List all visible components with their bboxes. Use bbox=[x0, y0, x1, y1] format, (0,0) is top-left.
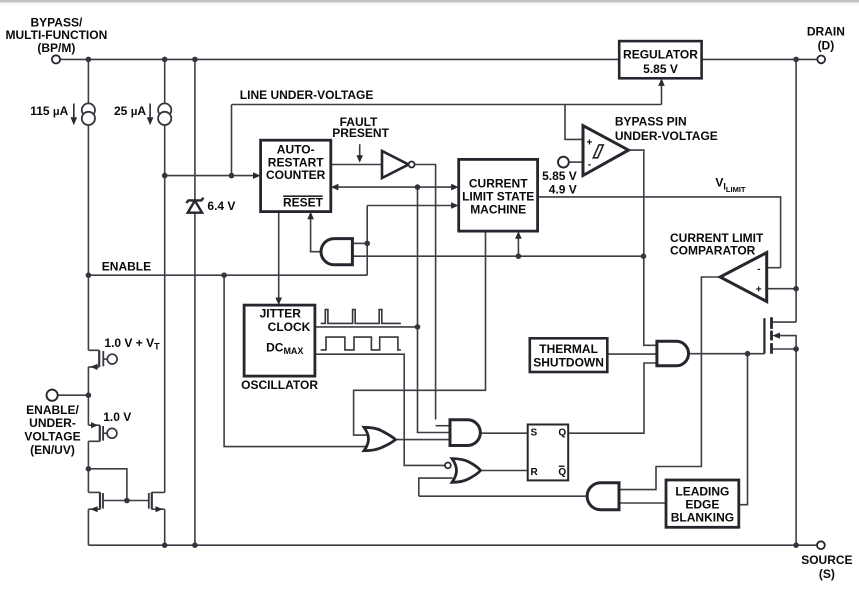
arrow mirror-left source bbox=[90, 506, 97, 512]
junction: ENABLE line / OR1 branch bbox=[221, 272, 227, 278]
svg-text:COUNTER: COUNTER bbox=[266, 168, 326, 182]
arrow left into auto-restart right edge bbox=[331, 184, 339, 191]
arrow reset up bbox=[307, 212, 314, 220]
wire: MOSFET drain connection bbox=[772, 321, 797, 323]
junction: gate node / LEB branch bbox=[745, 351, 751, 357]
115uA current source I1 bbox=[82, 103, 95, 125]
oscillator DCmax waveform bbox=[321, 337, 401, 350]
svg-text:(EN/UV): (EN/UV) bbox=[30, 443, 75, 457]
junction: MOSFET source / body tie bbox=[793, 346, 799, 352]
wire: mirror left FET drain/source stubs bbox=[88, 492, 100, 509]
svg-text:SHUTDOWN: SHUTDOWN bbox=[533, 355, 604, 369]
wire: auto-restart/clock vertical x=417.5 bbox=[418, 187, 451, 432]
overline for RESET bbox=[283, 195, 323, 197]
svg-text:OSCILLATOR: OSCILLATOR bbox=[241, 378, 318, 392]
svg-text:5.85 V: 5.85 V bbox=[542, 169, 577, 183]
wire: mirror right FET drain/source stubs bbox=[152, 492, 165, 509]
svg-text:EDGE: EDGE bbox=[685, 498, 719, 512]
wire: gate node branch to LEB input bbox=[739, 354, 748, 505]
terminal: DRAIN (D) bbox=[817, 56, 825, 64]
wire: FET1 drain/source stubs bbox=[88, 350, 99, 367]
wire: OR2 output to latch R bbox=[481, 470, 528, 472]
box: SR latch bbox=[528, 425, 569, 481]
junction: clock output / fault riser bbox=[415, 324, 421, 330]
svg-text:25 μA: 25 μA bbox=[114, 104, 146, 118]
junction: comparator plus / drain sense bbox=[793, 286, 799, 292]
svg-text:BYPASS PIN: BYPASS PIN bbox=[615, 114, 687, 128]
svg-text:MACHINE: MACHINE bbox=[470, 202, 526, 216]
wire: FET2 drain/source stubs bbox=[88, 425, 99, 441]
wire: mirror gate link y=500.5 bbox=[103, 500, 149, 502]
svg-text:DRAIN: DRAIN bbox=[807, 25, 845, 39]
wire: bypass comparator output down x=643.8 bbox=[629, 150, 657, 345]
comparator +/- signs bbox=[587, 137, 762, 295]
wire: MOSFET source connection bbox=[772, 348, 797, 350]
svg-text:LINE UNDER-VOLTAGE: LINE UNDER-VOLTAGE bbox=[240, 88, 374, 102]
comparator: current limit (points left) bbox=[720, 253, 767, 302]
arrow up into regulator bottom bbox=[658, 78, 665, 86]
junction: source rail / bus B2 bbox=[162, 542, 168, 548]
arrow 115uA down bbox=[71, 117, 78, 125]
wire: regulator feed line y=104.5 bbox=[232, 104, 662, 106]
wire: LEB-AND output line y=496.2 bbox=[419, 495, 587, 497]
wire: enable branch x=224.1 to OR1 bbox=[224, 275, 366, 446]
FET2 gate reference circle bbox=[107, 428, 117, 438]
wire: bus B1 x=88.4 mid bbox=[87, 367, 89, 425]
svg-text:CLOCK: CLOCK bbox=[268, 320, 311, 334]
svg-text:+: + bbox=[756, 285, 762, 296]
wire: OR1 output to AND1 bbox=[396, 439, 451, 441]
svg-text:BLANKING: BLANKING bbox=[671, 511, 734, 525]
wire: clock output y=326.9 bbox=[315, 326, 418, 328]
wire: bypass comp plus input bbox=[565, 105, 583, 140]
junction: source rail / bus B3 bbox=[192, 542, 198, 548]
wire: LEB output to LEB-AND lower input bbox=[619, 502, 666, 504]
gate: OR1 bbox=[364, 427, 396, 450]
svg-text:CURRENT: CURRENT bbox=[469, 177, 528, 191]
wire: EN/UV terminal lead bbox=[58, 394, 89, 396]
bubble on inverter output bbox=[409, 162, 415, 168]
svg-text:Q: Q bbox=[558, 427, 566, 438]
box: CURRENT LIMIT STATE MACHINE bbox=[459, 159, 538, 231]
junction: BP/M rail / bus B1 bbox=[86, 57, 92, 63]
MOSFET output transistor bbox=[764, 317, 771, 354]
wire: comparator minus input y=267.7 bbox=[767, 267, 781, 269]
wire: thermal AND output to gate y=353.7 bbox=[689, 353, 765, 355]
wire: bottom source rail bbox=[88, 544, 817, 546]
wire: current limit comparator output path bbox=[619, 277, 720, 490]
wire: comparator plus input y=288.7 bbox=[767, 288, 796, 290]
svg-text:VOLTAGE: VOLTAGE bbox=[24, 430, 80, 444]
svg-text:ENABLE/: ENABLE/ bbox=[26, 403, 79, 417]
wire: fault-present bidirectional line y=187.1 bbox=[338, 186, 453, 188]
junction: source rail / MOSFET source bbox=[793, 542, 799, 548]
wire: line under-voltage drop x=231.5 bbox=[231, 105, 233, 176]
gate: OR2 bbox=[452, 459, 481, 483]
box: REGULATOR 5.85V bbox=[619, 41, 701, 78]
bubble on OR2 input bbox=[445, 463, 451, 469]
junction: bypass-uv line / state machine arrow bbox=[516, 253, 522, 259]
terminal: BYPASS/MULTI-FUNCTION (BP/M) bbox=[52, 55, 60, 63]
wire: top rail REGULATOR to DRAIN terminal bbox=[702, 58, 818, 60]
latch pin labels bbox=[531, 427, 567, 478]
overline for Qbar bbox=[559, 465, 565, 467]
svg-text:RESTART: RESTART bbox=[268, 155, 324, 169]
wire: bus B1 x=88.4 lower bbox=[87, 441, 89, 492]
wire: auto-restart to inverter y=164.5 bbox=[331, 164, 382, 166]
svg-text:-: - bbox=[588, 160, 591, 171]
svg-text:COMPARATOR: COMPARATOR bbox=[670, 244, 756, 258]
wire: MOSFET body tie bbox=[778, 336, 796, 349]
wire: FET1 gate lead bbox=[103, 358, 107, 360]
svg-text:S: S bbox=[531, 427, 538, 438]
wire: thermal shutdown output y=354.1 bbox=[607, 353, 657, 355]
svg-text:THERMAL: THERMAL bbox=[539, 342, 598, 356]
arrow into state machine input 1 bbox=[451, 184, 459, 191]
wire: bus B2 x=164.7 bbox=[164, 59, 166, 492]
gate: thermal AND bbox=[657, 341, 689, 366]
svg-text:RESET: RESET bbox=[283, 196, 324, 210]
junction: line under-voltage / auto-restart input bbox=[229, 173, 235, 179]
oscillator clock waveform bbox=[321, 310, 401, 324]
wire: bypass comp minus input from 5.85/4.9 terminal bbox=[569, 161, 583, 163]
svg-text:(D): (D) bbox=[818, 39, 835, 53]
FET1 (1.0V+VT) symbol bars bbox=[99, 350, 103, 367]
wire: OR2 lower input from LEB-AND output bbox=[419, 478, 453, 496]
svg-text:LEADING: LEADING bbox=[675, 485, 729, 499]
wire: inverter line into AND1 top bbox=[436, 425, 450, 427]
svg-text:REGULATOR: REGULATOR bbox=[623, 47, 698, 61]
wire: drain vertical x=796.1 upper bbox=[795, 59, 797, 322]
svg-text:115 μA: 115 μA bbox=[30, 104, 68, 118]
svg-text:(BP/M): (BP/M) bbox=[37, 41, 75, 55]
svg-text:6.4 V: 6.4 V bbox=[207, 199, 235, 213]
svg-text:ENABLE: ENABLE bbox=[102, 260, 151, 274]
wire: 25uA tap to auto-restart input y=175.6 bbox=[165, 175, 255, 177]
junction: bus B2 / auto-restart input bbox=[162, 173, 168, 179]
wire: state machine bottom output path bbox=[354, 231, 486, 435]
wire: ENABLE line y=275.2 bbox=[88, 274, 367, 276]
comparator: bypass pin under-voltage bbox=[583, 126, 629, 176]
wire: source vertical x=796.1 to rail bbox=[795, 349, 797, 545]
wire: VILIMIT line y=196.9 bbox=[538, 197, 781, 268]
wire: inverter output to x=435.6 bbox=[415, 165, 436, 420]
mirror right FET bars bbox=[149, 492, 152, 509]
box: OSCILLATOR bbox=[244, 305, 315, 376]
junction: mirror gate tie / bus B1 bbox=[86, 466, 92, 472]
zener diode VR1 6.4V bbox=[186, 198, 203, 213]
wire: top rail BP/M to REGULATOR bbox=[60, 58, 619, 60]
wire: bus B2 x=164.7 to rail bbox=[164, 509, 166, 545]
wire: enable riser x=367.2 bbox=[366, 206, 368, 276]
svg-text:UNDER-VOLTAGE: UNDER-VOLTAGE bbox=[615, 129, 718, 143]
mirror left FET bars bbox=[100, 492, 103, 509]
box: LEADING EDGE BLANKING bbox=[666, 480, 739, 527]
junction: EN/UV terminal / bus B1 bbox=[86, 392, 92, 398]
wire: bus B3 x=194.9 upper (to zener) bbox=[194, 59, 196, 200]
junction: ENABLE line / bus B1 bbox=[86, 272, 92, 278]
svg-text:R: R bbox=[531, 467, 539, 478]
junction: BP/M rail / bus B3 bbox=[192, 57, 198, 63]
svg-text:+: + bbox=[587, 137, 593, 148]
arrowheads bbox=[71, 78, 780, 512]
gate: inverter U1 bbox=[382, 151, 409, 178]
terminal: ENABLE/UNDER-VOLTAGE (EN/UV) bbox=[47, 390, 58, 401]
wire: fault arrow stem bbox=[359, 144, 361, 155]
gate: reset AND (points left) bbox=[321, 239, 352, 265]
gate: LEB AND (points left) bbox=[587, 483, 619, 510]
svg-text:4.9 V: 4.9 V bbox=[549, 183, 577, 197]
wire: state machine up arrow stem x=518.4 bbox=[517, 239, 519, 257]
wire: DCmax output to OR2 bubble bbox=[315, 354, 445, 465]
box: THERMAL SHUTDOWN bbox=[530, 338, 608, 372]
junction: mirror gate link bbox=[124, 498, 130, 504]
MOSFET channel dashes bbox=[770, 317, 773, 354]
arrow FET2 drain right bbox=[91, 422, 98, 428]
wire: regulator bottom arrow stem x=661.5 bbox=[661, 86, 663, 105]
wire: bus B1 x=88.4 to rail bbox=[87, 509, 89, 545]
svg-text:(S): (S) bbox=[819, 567, 835, 581]
arrow mirror-right source bbox=[156, 506, 163, 512]
wire: enable to state machine y=205.5 bbox=[367, 205, 452, 207]
junction: drain node at top rail bbox=[793, 57, 799, 63]
svg-text:1.0 V + VT: 1.0 V + VT bbox=[104, 336, 160, 352]
arrow 25uA down bbox=[147, 117, 154, 125]
wire: bus B3 x=194.9 lower (zener to rail) bbox=[194, 213, 196, 545]
svg-text:1.0 V: 1.0 V bbox=[103, 410, 131, 424]
wire: reset AND output to RESET arrow bbox=[311, 219, 322, 252]
svg-text:AUTO-: AUTO- bbox=[277, 142, 315, 156]
junction: enable riser / reset AND input bbox=[364, 241, 370, 247]
terminal: 5.85V/4.9V reference input bbox=[558, 157, 569, 168]
FET2 (1.0V) symbol bars bbox=[100, 425, 103, 441]
svg-text:-: - bbox=[757, 264, 760, 275]
MOSFET gate bar bbox=[763, 318, 765, 354]
svg-text:LIMIT STATE: LIMIT STATE bbox=[462, 190, 534, 204]
svg-text:5.85 V: 5.85 V bbox=[643, 62, 678, 76]
arrow fault present down bbox=[356, 155, 363, 163]
arrow into state machine input 2 bbox=[451, 202, 459, 209]
wire: reset AND top input bbox=[352, 242, 367, 244]
arrow FET1 source left bbox=[90, 364, 97, 370]
junction: bypass-uv line / comparator drop bbox=[641, 253, 647, 259]
top gray border bbox=[0, 0, 859, 2]
wire: bus B1 x=88.4 upper bbox=[87, 59, 89, 350]
arrow into auto-restart counter left bbox=[253, 172, 261, 179]
wire: FET2 gate lead bbox=[103, 432, 107, 434]
wire: latch Q to thermal AND bbox=[568, 363, 657, 433]
svg-text:PRESENT: PRESENT bbox=[332, 126, 389, 140]
svg-text:UNDER-: UNDER- bbox=[29, 416, 76, 430]
arrow into oscillator top bbox=[275, 298, 282, 306]
svg-text:SOURCE: SOURCE bbox=[801, 553, 852, 567]
wire: bypass-uv line y=256.2 bbox=[352, 255, 643, 257]
wire: auto-restart to oscillator x=278.7 bbox=[278, 212, 280, 298]
svg-text:BYPASS/: BYPASS/ bbox=[31, 15, 83, 29]
arrow MOSFET body left bbox=[772, 333, 780, 339]
svg-text:JITTER: JITTER bbox=[260, 306, 302, 320]
wire: mirror diode tie bbox=[88, 469, 127, 501]
25uA current source I2 bbox=[158, 103, 171, 125]
junction: fault line / clock riser bbox=[415, 184, 421, 190]
junction: BP/M rail / bus B2 bbox=[162, 57, 168, 63]
arrow up into state machine bottom bbox=[515, 231, 522, 239]
svg-text:Q: Q bbox=[558, 467, 566, 478]
box: AUTO-RESTART COUNTER bbox=[261, 140, 331, 211]
FET1 gate reference circle bbox=[107, 354, 117, 364]
hysteresis symbol inside comparator bbox=[593, 145, 603, 158]
arrow stems for current source labels bbox=[74, 104, 150, 119]
gate: AND1 (sets latch) bbox=[450, 420, 480, 446]
wire: AND1 output to latch S bbox=[481, 432, 528, 434]
terminal: SOURCE (S) bbox=[817, 541, 825, 549]
